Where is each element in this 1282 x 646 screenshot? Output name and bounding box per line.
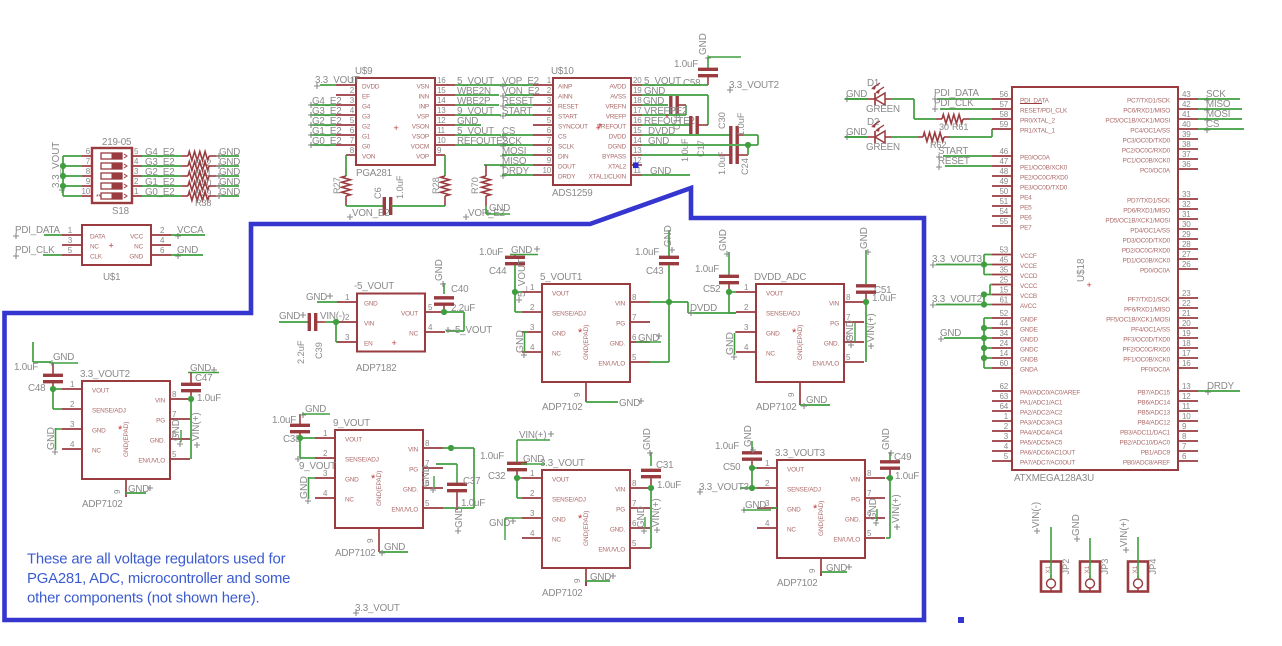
svg-text:1.0uF: 1.0uF <box>715 441 739 452</box>
net VON_E2 <box>347 208 389 220</box>
svg-text:C32: C32 <box>488 471 505 482</box>
ground GND at REG3 pin6 <box>636 333 662 344</box>
ground GND at JP3 <box>1071 514 1090 579</box>
svg-text:AVDD: AVDD <box>610 84 627 91</box>
svg-text:GNDD: GNDD <box>1020 337 1039 344</box>
svg-text:NC: NC <box>409 331 418 338</box>
component U$1 <box>62 225 171 265</box>
DIP switch S18 <box>82 147 143 203</box>
svg-text:16: 16 <box>1182 359 1191 368</box>
svg-text:DGND: DGND <box>608 144 627 151</box>
svg-text:GND.: GND. <box>824 341 840 348</box>
ground GND below R70 <box>485 203 510 216</box>
red marks near C17 C18 <box>598 113 669 133</box>
svg-text:49: 49 <box>1000 177 1009 186</box>
svg-text:PB6/ADC14: PB6/ADC14 <box>1137 400 1170 407</box>
net PDI_CLK at U$18 <box>932 98 992 112</box>
svg-text:9: 9 <box>113 489 122 494</box>
svg-text:R28: R28 <box>431 177 441 194</box>
svg-text:C52: C52 <box>703 284 720 295</box>
ground GND at REG4 pin9 <box>586 572 616 586</box>
svg-text:10: 10 <box>82 187 91 196</box>
svg-text:VIN: VIN <box>408 447 419 454</box>
ground GND rotated above C50 <box>743 425 756 453</box>
svg-text:18: 18 <box>1182 339 1191 348</box>
svg-text:PE0/OC0A: PE0/OC0A <box>1020 155 1051 162</box>
ground GND rotated at REG5 pin6 <box>845 320 856 348</box>
svg-text:1.0uF: 1.0uF <box>14 362 38 373</box>
svg-text:G3: G3 <box>362 114 371 121</box>
svg-text:NC: NC <box>552 537 561 544</box>
svg-text:3.3_VOUT2: 3.3_VOUT2 <box>932 294 982 305</box>
svg-text:16: 16 <box>633 116 642 125</box>
adc U$10 ADS1259 <box>533 76 642 185</box>
svg-text:AVSS: AVSS <box>610 94 626 101</box>
svg-text:AINP: AINP <box>558 84 572 91</box>
svg-text:C47: C47 <box>195 373 212 384</box>
svg-text:DRDY: DRDY <box>558 174 576 181</box>
svg-text:PD5/OC1B/XCK1/MOSI: PD5/OC1B/XCK1/MOSI <box>1105 218 1170 225</box>
svg-text:19: 19 <box>633 86 642 95</box>
svg-text:10: 10 <box>437 136 446 145</box>
resistor array R38-R42 <box>182 152 218 209</box>
svg-text:NC: NC <box>90 244 99 251</box>
svg-text:1.0uF: 1.0uF <box>197 393 221 404</box>
svg-text:C40: C40 <box>451 284 469 295</box>
svg-text:PDI_CLK: PDI_CLK <box>934 98 974 109</box>
svg-text:R70: R70 <box>470 177 480 194</box>
svg-text:VOUT: VOUT <box>345 437 362 444</box>
LED D1 GREEN <box>845 78 900 115</box>
svg-text:PGA281, ADC, microcontroller a: PGA281, ADC, microcontroller and some <box>27 571 290 587</box>
svg-text:GREEN: GREEN <box>866 104 900 115</box>
svg-text:GND(EPAD): GND(EPAD) <box>583 511 590 546</box>
svg-text:R27: R27 <box>332 177 342 194</box>
svg-text:219-05: 219-05 <box>102 137 132 148</box>
svg-text:PE1/OC0B/XCK0: PE1/OC0B/XCK0 <box>1020 165 1068 172</box>
svg-text:ADP7182: ADP7182 <box>356 363 397 374</box>
ground GND label above C32 <box>521 454 545 465</box>
svg-text:PA4/ADC4/AC4: PA4/ADC4/AC4 <box>1020 430 1063 437</box>
svg-text:VSN: VSN <box>416 84 429 91</box>
svg-text:DATA: DATA <box>90 234 106 241</box>
wire R62 to U$18 pin59 <box>950 129 992 137</box>
svg-text:EN/UVLO: EN/UVLO <box>598 547 625 554</box>
svg-text:30: 30 <box>939 122 949 132</box>
svg-text:GND: GND <box>663 225 674 247</box>
svg-text:13: 13 <box>437 106 446 115</box>
wire REG2 VIN to EN <box>443 445 474 508</box>
capacitor C37 1.0uF <box>436 464 485 510</box>
svg-text:GND.: GND. <box>403 487 419 494</box>
svg-text:GND: GND <box>552 517 566 524</box>
svg-text:18: 18 <box>633 96 642 105</box>
svg-text:CLK: CLK <box>90 254 103 261</box>
net SCK at U$18 <box>1198 89 1240 103</box>
svg-text:PA1/ADC1/AC1: PA1/ADC1/AC1 <box>1020 400 1063 407</box>
svg-text:PE3/OC0D/TXD0: PE3/OC0D/TXD0 <box>1020 185 1068 192</box>
svg-text:PB4/ADC12: PB4/ADC12 <box>1137 420 1170 427</box>
svg-text:VCC: VCC <box>130 234 143 241</box>
svg-text:3.3_VOUT: 3.3_VOUT <box>540 458 585 469</box>
svg-text:R61: R61 <box>952 122 968 132</box>
svg-text:1.0uF: 1.0uF <box>736 112 746 136</box>
svg-text:21: 21 <box>1182 309 1191 318</box>
svg-text:56: 56 <box>1000 90 1009 99</box>
svg-text:39: 39 <box>1182 130 1191 139</box>
capacitor C43 1.0uF <box>635 230 679 362</box>
svg-text:SENSE/ADJ: SENSE/ADJ <box>552 497 586 504</box>
svg-text:47: 47 <box>1000 157 1009 166</box>
svg-text:C48: C48 <box>28 383 46 394</box>
svg-text:PB7/ADC15: PB7/ADC15 <box>1137 390 1170 397</box>
svg-text:3.3_VOUT3: 3.3_VOUT3 <box>932 254 983 265</box>
svg-text:55: 55 <box>1000 217 1009 226</box>
svg-text:PF0/OC0A: PF0/OC0A <box>1141 367 1171 374</box>
svg-text:11: 11 <box>437 126 446 135</box>
ground GND rotated at REG2 pin6 <box>421 465 436 493</box>
svg-text:PC2/OC0C/RXD0: PC2/OC0C/RXD0 <box>1122 148 1171 155</box>
svg-text:other components (not shown he: other components (not shown here). <box>27 590 259 606</box>
svg-text:15: 15 <box>437 86 446 95</box>
svg-text:PD3/OC0D/TXD0: PD3/OC0D/TXD0 <box>1123 238 1171 245</box>
svg-text:PC1/OC0B/XCK0: PC1/OC0B/XCK0 <box>1123 158 1171 165</box>
svg-text:13: 13 <box>633 146 642 155</box>
svg-text:1.0uF: 1.0uF <box>680 138 690 162</box>
ground GND above C44 <box>510 245 540 256</box>
svg-text:GND: GND <box>489 518 510 529</box>
svg-text:51: 51 <box>1000 197 1009 206</box>
svg-text:-5_VOUT: -5_VOUT <box>452 325 492 336</box>
svg-text:PGA281: PGA281 <box>356 168 392 179</box>
nets at U$9 right side <box>455 76 513 147</box>
svg-text:PG: PG <box>156 418 165 425</box>
LED D2 GREEN <box>845 117 900 153</box>
ground GND at U$1 <box>171 245 203 259</box>
svg-text:XTAL2: XTAL2 <box>608 164 627 171</box>
voltage regulator ADP7102 (DVDD_ADC) <box>736 272 864 413</box>
svg-text:PB5/ADC13: PB5/ADC13 <box>1137 410 1170 417</box>
svg-text:PC0/OC0A: PC0/OC0A <box>1140 168 1171 175</box>
svg-text:-5_VOUT: -5_VOUT <box>354 281 394 292</box>
capacitor C31 1.0uF <box>641 452 681 548</box>
svg-text:SYNCOUT: SYNCOUT <box>558 124 588 131</box>
svg-text:+: + <box>391 338 396 348</box>
svg-text:RESET: RESET <box>558 104 579 111</box>
net VIN(+) rotated at REG6 <box>891 494 902 530</box>
svg-text:START: START <box>558 114 578 121</box>
GND labels right of R38 array <box>216 147 240 199</box>
connector JP2 <box>1041 559 1071 592</box>
svg-text:GND: GND <box>743 425 754 447</box>
svg-text:1.0uF: 1.0uF <box>674 59 698 70</box>
svg-text:GND: GND <box>718 229 729 251</box>
svg-text:45: 45 <box>1000 256 1009 265</box>
voltage regulator ADP7102 (3.3_VOUT2) <box>62 369 190 510</box>
svg-text:GND: GND <box>384 542 405 553</box>
svg-text:ADP7102: ADP7102 <box>756 402 797 413</box>
net DVDD wire from REG3 to REG5 <box>669 302 736 316</box>
ground GND at D2 <box>844 127 867 140</box>
svg-text:GND: GND <box>787 507 801 514</box>
svg-text:GND(EPAD): GND(EPAD) <box>797 325 804 360</box>
svg-text:VOUT: VOUT <box>401 311 418 318</box>
svg-text:PC3/OC0D/TXD0: PC3/OC0D/TXD0 <box>1123 138 1171 145</box>
svg-text:PB2/ADC10/DAC0: PB2/ADC10/DAC0 <box>1120 440 1171 447</box>
capacitor C40 2.2uF <box>434 283 475 315</box>
ground GND at U$10 pin14 wire <box>642 136 751 148</box>
ground GND left of C39 <box>279 311 309 322</box>
svg-text:PE6: PE6 <box>1020 215 1032 222</box>
svg-text:64: 64 <box>1000 402 1009 411</box>
svg-text:GNDE: GNDE <box>1020 327 1038 334</box>
svg-text:JP3: JP3 <box>1100 559 1110 575</box>
svg-text:VREFN: VREFN <box>605 104 626 111</box>
svg-text:VON_E2: VON_E2 <box>352 208 389 219</box>
svg-text:60: 60 <box>1000 359 1009 368</box>
svg-text:VIN: VIN <box>850 477 861 484</box>
ground GND rotated at REG1 pin3 <box>46 427 62 455</box>
svg-text:50: 50 <box>1000 187 1009 196</box>
svg-text:41: 41 <box>1182 110 1191 119</box>
svg-text:C30: C30 <box>717 112 727 129</box>
svg-text:PG: PG <box>851 497 860 504</box>
connector JP3 <box>1080 559 1110 592</box>
voltage regulator ADP7102 (5_VOUT1) <box>522 272 650 413</box>
svg-text:VIN: VIN <box>155 398 166 405</box>
ground GND rotated below C37 <box>454 506 465 534</box>
svg-text:GND: GND <box>590 572 611 583</box>
svg-text:**: ** <box>96 194 102 201</box>
svg-text:ADS1259: ADS1259 <box>552 188 593 199</box>
svg-text:34: 34 <box>1000 329 1009 338</box>
svg-text:GND: GND <box>434 259 445 281</box>
svg-text:VCCE: VCCE <box>1020 263 1037 270</box>
svg-text:G2: G2 <box>362 124 371 131</box>
net VIN(+) rotated at REG5 <box>866 313 877 349</box>
net DRDY at U$18 <box>1198 381 1240 395</box>
svg-text:ADP7102: ADP7102 <box>542 588 583 599</box>
svg-text:VIN: VIN <box>615 487 626 494</box>
svg-text:23: 23 <box>1182 289 1191 298</box>
svg-text:PB1/ADC9: PB1/ADC9 <box>1141 450 1171 457</box>
connector JP4 <box>1128 559 1158 592</box>
net DVDD at U$10 pin15 <box>642 126 730 137</box>
svg-text:ADP7102: ADP7102 <box>542 402 583 413</box>
svg-text:17: 17 <box>633 106 642 115</box>
svg-text:2.2uF: 2.2uF <box>296 340 306 364</box>
svg-text:GNDB: GNDB <box>1020 357 1038 364</box>
svg-text:PD6/RXD1/MISO: PD6/RXD1/MISO <box>1123 208 1170 215</box>
svg-text:U$1: U$1 <box>103 272 120 283</box>
svg-text:C58: C58 <box>683 78 701 89</box>
svg-text:DIN: DIN <box>558 154 569 161</box>
svg-text:44: 44 <box>1000 319 1009 328</box>
svg-text:9_VOUT: 9_VOUT <box>299 461 336 472</box>
svg-text:VIN(+): VIN(+) <box>1119 518 1130 547</box>
svg-text:NC: NC <box>787 527 796 534</box>
svg-text:48: 48 <box>1000 167 1009 176</box>
svg-text:43: 43 <box>1182 90 1191 99</box>
svg-text:46: 46 <box>1000 147 1009 156</box>
svg-text:54: 54 <box>1000 207 1009 216</box>
ground GND above C48 <box>33 342 78 366</box>
svg-text:DVDD: DVDD <box>690 303 717 314</box>
ground GND at U$10 pin19 wire <box>642 86 708 125</box>
svg-text:EN/UVLO: EN/UVLO <box>812 361 839 368</box>
svg-text:VSOP: VSOP <box>412 134 429 141</box>
svg-text:G0: G0 <box>362 144 371 151</box>
microcontroller U$18 ATXMEGA128A3U <box>992 87 1198 470</box>
capacitor C44 1.0uF <box>479 247 525 312</box>
capacitor C51 1.0uF <box>856 250 896 362</box>
capacitor C39 2.2uF <box>296 313 336 364</box>
svg-text:VSP: VSP <box>417 114 429 121</box>
svg-text:GREEN: GREEN <box>866 142 900 153</box>
svg-text:PE2/OC0C/RXD0: PE2/OC0C/RXD0 <box>1020 175 1068 182</box>
svg-text:XTAL1/CLKIN: XTAL1/CLKIN <box>589 174 627 181</box>
svg-text:17: 17 <box>1182 349 1191 358</box>
svg-text:62: 62 <box>1000 382 1009 391</box>
ground GND rotated at REG3 pin3 <box>515 330 528 358</box>
svg-text:GND: GND <box>454 506 465 528</box>
capacitor C6 1.0uF <box>346 175 445 215</box>
net 5_VOUT at U$10 pin20 <box>642 76 708 87</box>
svg-text:PF1/OC0B/XCK0: PF1/OC0B/XCK0 <box>1123 357 1170 364</box>
svg-text:20: 20 <box>1182 319 1191 328</box>
svg-text:14: 14 <box>1000 349 1009 358</box>
svg-text:32: 32 <box>1182 200 1191 209</box>
net 5_VOUT rotated at REG3 <box>516 259 528 303</box>
svg-text:GND: GND <box>619 398 640 409</box>
svg-text:VIN: VIN <box>364 321 375 328</box>
svg-text:GND(EPAD): GND(EPAD) <box>818 501 825 536</box>
svg-text:GNDF: GNDF <box>1020 317 1038 324</box>
svg-text:GND: GND <box>421 465 432 487</box>
net VIN(+) label above C32 <box>517 430 554 441</box>
ground GND at REG3 pin9 <box>586 398 644 409</box>
svg-text:20: 20 <box>633 76 642 85</box>
svg-text:GND: GND <box>489 203 510 214</box>
svg-text:VCCF: VCCF <box>1020 253 1037 260</box>
svg-text:VREFP: VREFP <box>606 114 626 121</box>
svg-text:GND: GND <box>129 254 143 261</box>
svg-text:9: 9 <box>808 568 817 573</box>
svg-text:VIN: VIN <box>829 301 840 308</box>
svg-text:GND: GND <box>766 331 780 338</box>
svg-text:EN/UVLO: EN/UVLO <box>598 361 625 368</box>
voltage regulator ADP7102 (9_VOUT) <box>315 418 443 559</box>
svg-text:PA0/ADC0/AC0/AREF: PA0/ADC0/AC0/AREF <box>1020 390 1080 397</box>
net START at U$18 <box>936 146 992 160</box>
svg-text:63: 63 <box>1000 392 1009 401</box>
svg-text:30: 30 <box>1182 220 1191 229</box>
svg-text:R38: R38 <box>195 198 211 208</box>
net 3.3_VOUT at U$9 pin1 <box>314 75 360 89</box>
svg-text:9: 9 <box>787 392 796 397</box>
svg-text:52: 52 <box>1000 309 1009 318</box>
wire R61 to U$18 pin58 <box>970 118 992 120</box>
ground GND at U$10 pin11 <box>642 166 690 177</box>
svg-text:37: 37 <box>1182 150 1191 159</box>
svg-text:58: 58 <box>1000 110 1009 119</box>
svg-text:ADP7102: ADP7102 <box>335 548 376 559</box>
ground GND rotated above C52 <box>718 229 730 257</box>
ground GND rotated above C43 <box>663 225 675 253</box>
capacitor C30 1.0uF <box>717 112 758 145</box>
net 3.3_VOUT3 at REG6 pin2 <box>697 482 750 495</box>
svg-text:VIN(+): VIN(+) <box>191 412 202 441</box>
svg-text:9: 9 <box>573 578 582 583</box>
svg-text:PA6/ADC6/AC1OUT: PA6/ADC6/AC1OUT <box>1020 450 1075 457</box>
svg-text:+: + <box>1086 280 1091 290</box>
ground GND rotated above C51 <box>859 227 871 255</box>
svg-text:NC: NC <box>766 351 775 358</box>
ground GND above C38 <box>300 404 330 418</box>
capacitor C32 1.0uF <box>480 440 527 498</box>
svg-text:10: 10 <box>543 166 552 175</box>
ground GND rotated at REG1 pin6 <box>171 419 183 447</box>
svg-text:SENSE/ADJ: SENSE/ADJ <box>92 408 126 415</box>
svg-text:G1: G1 <box>362 134 371 141</box>
svg-text:PR1/XTAL_1: PR1/XTAL_1 <box>1020 128 1055 135</box>
svg-text:3.3_VOUT: 3.3_VOUT <box>355 603 400 614</box>
svg-text:26: 26 <box>1182 260 1191 269</box>
nets at U$10 left side <box>500 76 539 179</box>
svg-text:15: 15 <box>633 126 642 135</box>
svg-text:PG: PG <box>616 321 625 328</box>
svg-text:27: 27 <box>1182 250 1191 259</box>
ground GND at REG1 pin9 <box>126 484 153 495</box>
svg-text:AVCC: AVCC <box>1020 303 1037 310</box>
nets G4_E2..G0_E2 from S18 <box>142 147 182 198</box>
voltage regulator ADP7102 (3.3_VOUT) <box>522 458 650 599</box>
ground GND at ADP7182 pin1 <box>306 292 337 303</box>
svg-text:10: 10 <box>1182 412 1191 421</box>
svg-text:C39: C39 <box>314 342 324 359</box>
svg-text:PR0/XTAL_2: PR0/XTAL_2 <box>1020 118 1055 125</box>
svg-text:VOUT: VOUT <box>552 477 569 484</box>
svg-text:PE7: PE7 <box>1020 225 1032 232</box>
svg-text:EN/UVLO: EN/UVLO <box>391 507 418 514</box>
svg-text:GND.: GND. <box>610 527 626 534</box>
svg-text:JP2: JP2 <box>1061 559 1071 575</box>
svg-text:U$18: U$18 <box>1076 258 1087 282</box>
svg-text:24: 24 <box>1000 339 1009 348</box>
svg-text:VOUT: VOUT <box>92 388 109 395</box>
nets G4_E2..G0_E2 at U$9 <box>308 96 342 148</box>
svg-text:U$10: U$10 <box>551 66 574 77</box>
svg-text:40: 40 <box>1182 120 1191 129</box>
svg-text:PE4: PE4 <box>1020 195 1032 202</box>
svg-text:PF5/OC1B/XCK1/MOSI: PF5/OC1B/XCK1/MOSI <box>1106 317 1170 324</box>
svg-text:GND: GND <box>279 311 300 322</box>
svg-text:19: 19 <box>1182 329 1191 338</box>
svg-text:EN/UVLO: EN/UVLO <box>138 458 165 465</box>
wire D1 to R61 <box>891 99 936 119</box>
svg-text:GND: GND <box>859 227 870 249</box>
svg-text:VCCD: VCCD <box>1020 273 1038 280</box>
svg-text:PE5: PE5 <box>1020 205 1032 212</box>
svg-text:1.0uF: 1.0uF <box>717 151 727 175</box>
ground GND rotated at REG4 pin6 <box>636 506 647 534</box>
ground GND rotated above C31 <box>642 428 653 456</box>
svg-text:1.0uF: 1.0uF <box>479 247 503 258</box>
voltage regulator ADP7102 (3.3_VOUT3) <box>757 448 885 589</box>
svg-text:VIN(+): VIN(+) <box>866 313 877 342</box>
svg-text:1.0uF: 1.0uF <box>657 480 681 491</box>
svg-text:13: 13 <box>1182 382 1191 391</box>
